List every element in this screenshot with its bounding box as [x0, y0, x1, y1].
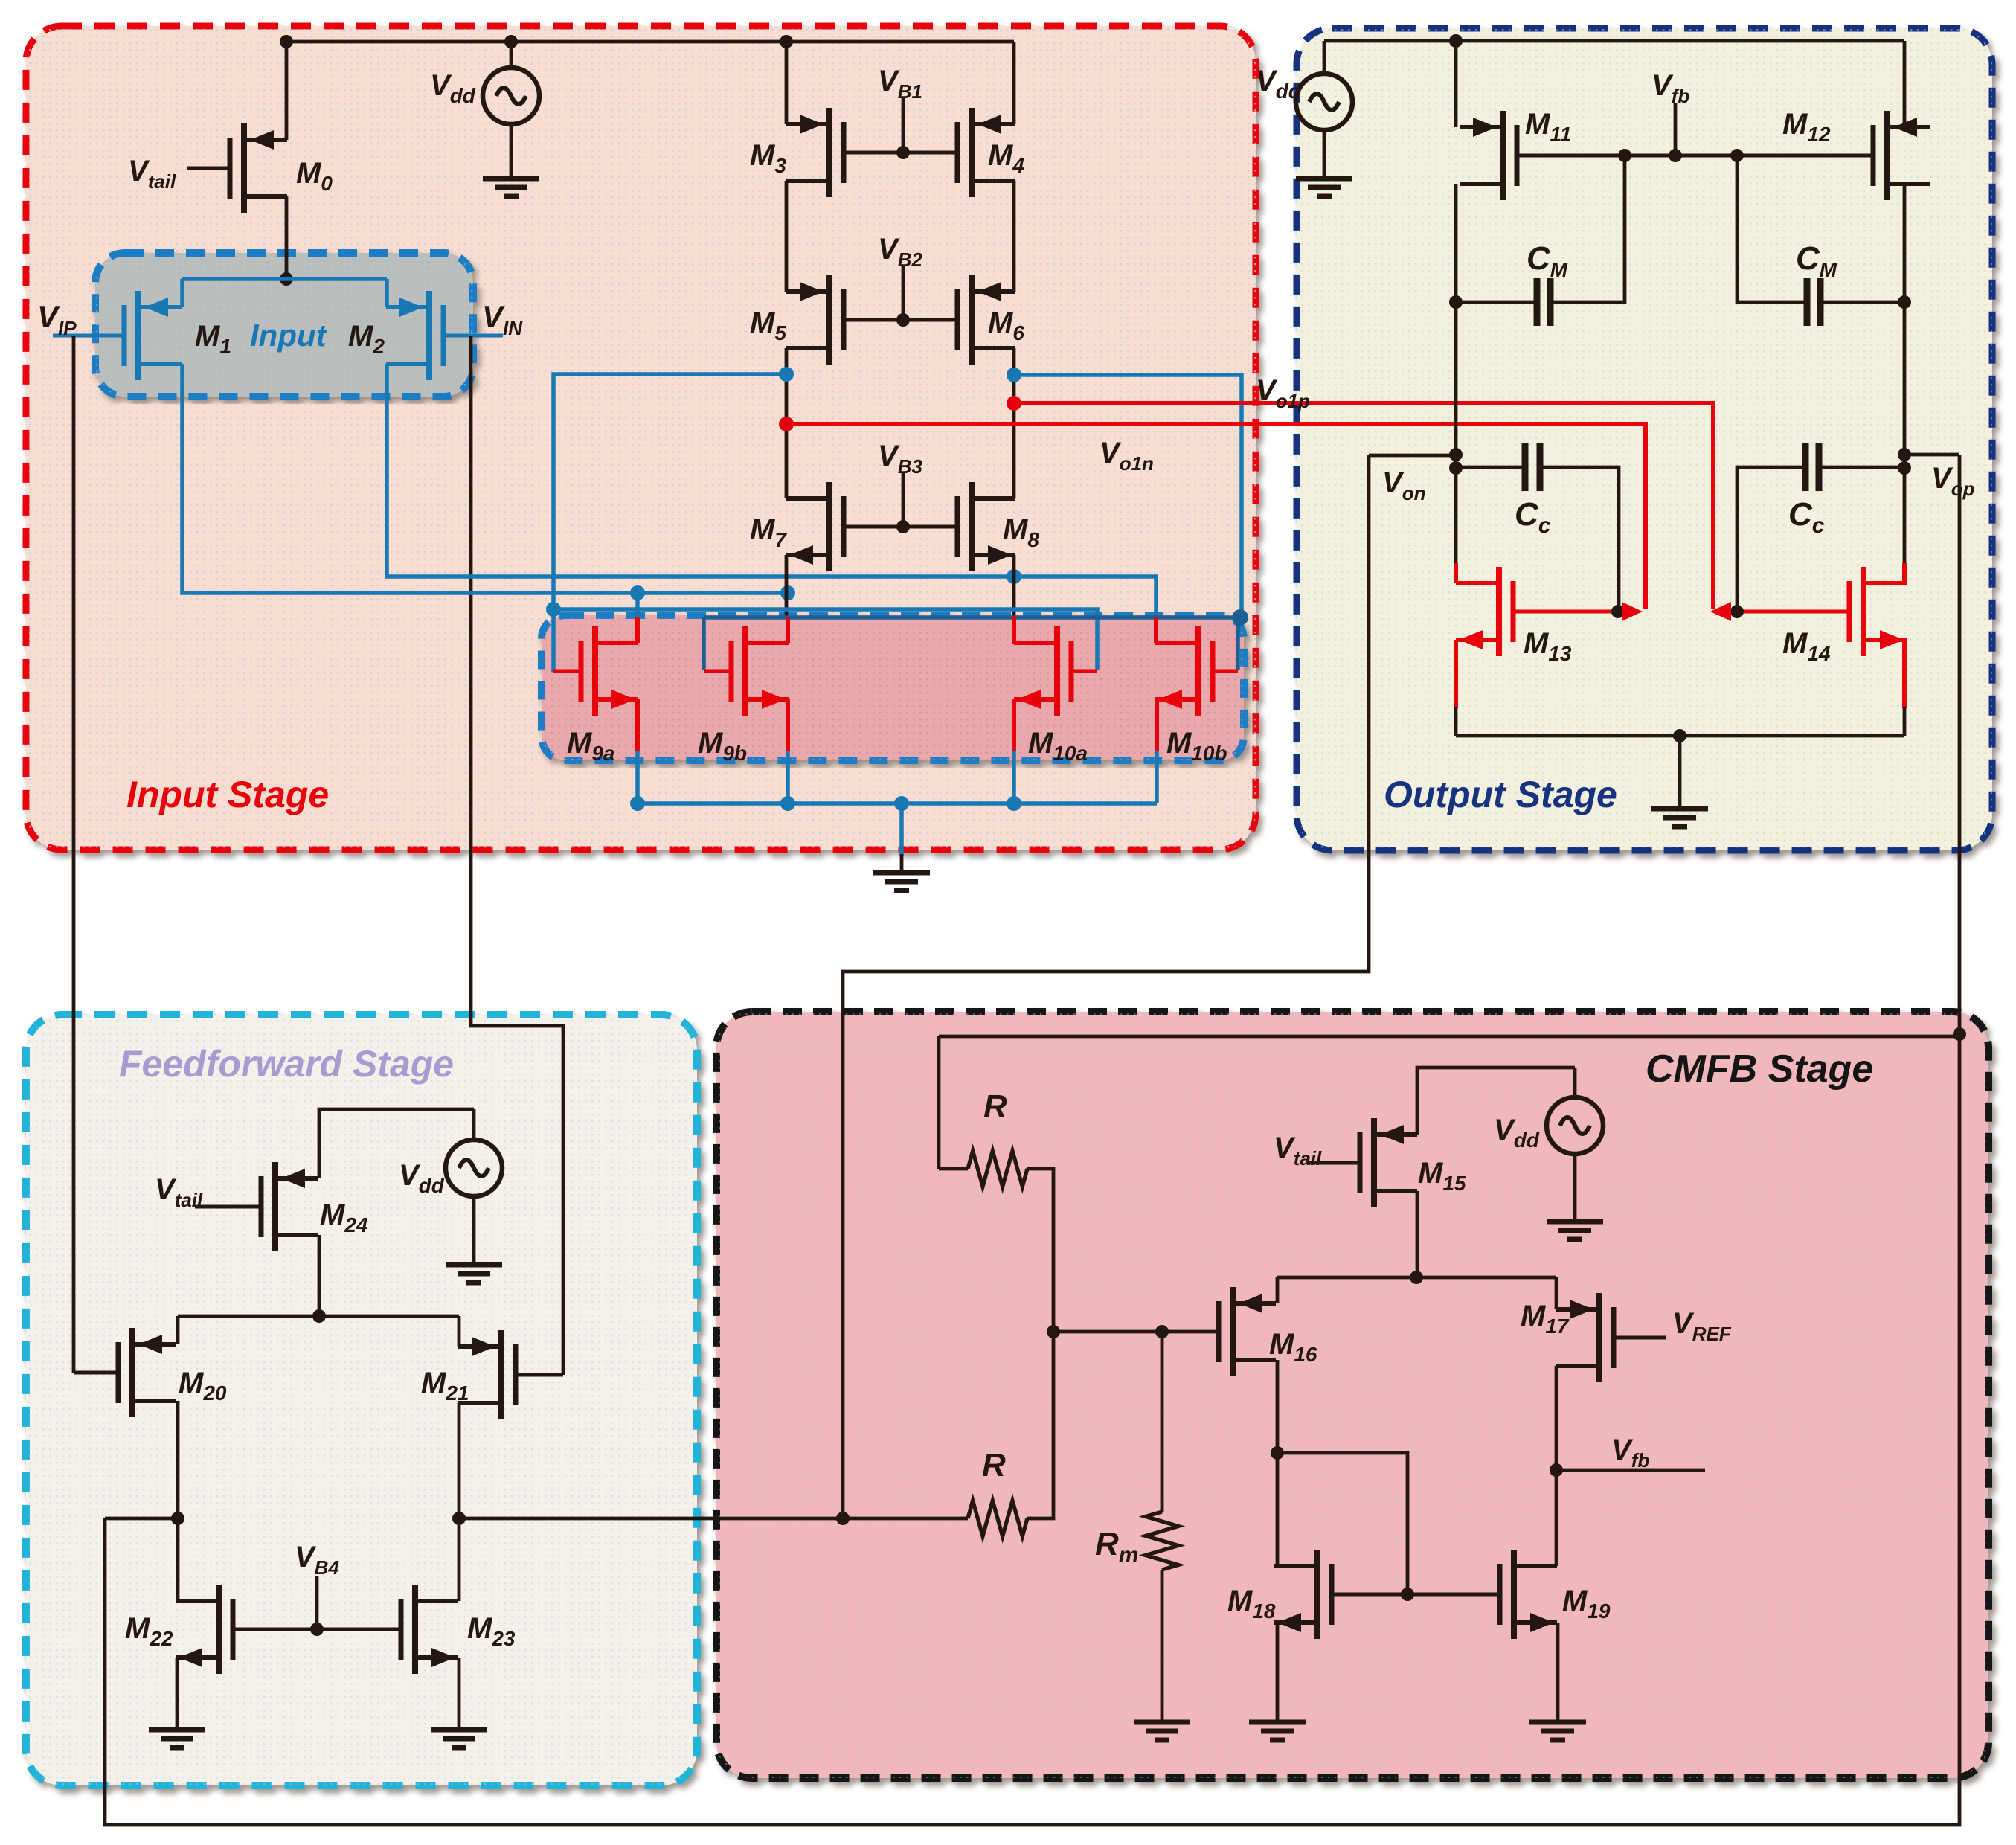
label CM (right) — [1796, 240, 1837, 281]
power source Vdd (input stage) — [483, 68, 539, 124]
wire M3 source up — [785, 42, 789, 124]
wire M11/M12 gate line — [1519, 154, 1871, 158]
input stage box — [26, 26, 1256, 850]
node Vop — [1898, 448, 1911, 461]
wire upper R drop — [937, 1036, 941, 1169]
wire M13 drain up (red) — [1454, 563, 1458, 583]
wire M9b source down — [786, 699, 790, 803]
wire input pair top (blue) — [182, 277, 387, 281]
node M15 drain / pair — [1410, 1271, 1423, 1284]
node Vop/CMFB rail — [1953, 1027, 1966, 1041]
wire Vdd rail (output stage) — [1324, 39, 1904, 43]
M9/M10 inner box — [542, 615, 1244, 760]
label M11 — [1525, 108, 1571, 146]
node bus M9a — [630, 796, 645, 811]
wire Vo1n net (blue) — [1014, 375, 1242, 616]
wire Vdd to ground (cmfb) — [1573, 1152, 1577, 1220]
wire M16/M17 source rail — [1277, 1276, 1556, 1280]
wire M13 gate lead (red) — [1513, 610, 1635, 614]
power source Vdd (CMFB) — [1547, 1097, 1603, 1154]
wire Vdd stub (ff) — [472, 1109, 476, 1141]
wire M17 drain down — [1555, 1366, 1558, 1566]
wire M21 source up — [458, 1316, 461, 1347]
label M9b — [698, 727, 747, 765]
wire M16 drain to M18/M19 gates — [1277, 1453, 1407, 1594]
label Vtail (M15) — [1274, 1132, 1322, 1169]
label Vdd (CMFB) — [1494, 1114, 1540, 1152]
feedforward stage box — [26, 1015, 697, 1785]
label VB3 — [878, 440, 922, 478]
wire M10b gate lead — [1213, 670, 1238, 673]
wire Vfb out (CMFB) — [1556, 1469, 1705, 1472]
label VREF — [1672, 1307, 1732, 1345]
label Vop — [1931, 462, 1975, 500]
wire M12 source up — [1903, 41, 1907, 127]
wire M4 drain down — [1012, 181, 1016, 292]
wire M24 drain down — [318, 1235, 321, 1316]
node CM-left gate — [1618, 149, 1631, 162]
label Vo1n — [1100, 437, 1154, 475]
wire Von bracket — [1369, 454, 1456, 458]
transistor M1 — [124, 291, 182, 380]
wire M2 drain down (blue) — [387, 364, 1156, 642]
wire M10b source red part — [1155, 699, 1159, 751]
label M14 — [1782, 627, 1831, 665]
wire output stage bottom rail — [1456, 734, 1904, 738]
label R (lower) — [982, 1447, 1006, 1483]
wire M9a source red part — [635, 699, 640, 751]
ground (M23) — [431, 1730, 487, 1748]
node VB4 gate — [310, 1623, 324, 1636]
wire Vop down to CMFB rail — [1958, 455, 1962, 1034]
label M19 — [1562, 1585, 1611, 1623]
cmfb stage box — [716, 1012, 1988, 1778]
label M1 — [195, 320, 231, 358]
capacitor CM (left) — [1537, 278, 1550, 326]
wire upper R out — [1027, 1169, 1053, 1332]
node Vfb (CMFB) — [1550, 1463, 1563, 1477]
capacitor CM (right) — [1807, 278, 1820, 326]
ground (Rm) — [1134, 1722, 1190, 1740]
capacitor Cc (right) — [1805, 443, 1819, 491]
wire Vo1n along box edge (navy) — [704, 615, 1240, 620]
label Output Stage — [1384, 774, 1617, 815]
wire upper R lead-in — [939, 1167, 968, 1171]
wire R node to M16 gate — [1053, 1330, 1219, 1334]
node M9a drain junction — [630, 585, 645, 600]
label M20 — [179, 1367, 227, 1405]
transistor M22 — [176, 1585, 233, 1674]
label VB2 — [878, 233, 922, 271]
label Rm — [1095, 1526, 1138, 1568]
wire Vdd stub (output) — [1323, 41, 1326, 75]
wire M5 drain down — [785, 348, 789, 498]
wire M20 drain down — [176, 1401, 180, 1601]
label M5 — [750, 307, 786, 344]
node bus M10a — [1007, 796, 1021, 811]
wire M0 gate — [187, 167, 230, 170]
label M18 — [1227, 1585, 1276, 1623]
wire M10b gate up (navy) — [1236, 617, 1240, 670]
wire source bus (blue) — [638, 801, 1157, 806]
node CM-right gate — [1730, 149, 1744, 162]
wire M3/M4 gate line — [844, 151, 957, 155]
power source Vdd (output stage) — [1296, 74, 1352, 130]
wire M11 source up — [1454, 41, 1458, 127]
transistor M14 — [1849, 567, 1907, 656]
wire M7 source down — [785, 555, 789, 617]
node Von — [1449, 448, 1463, 461]
node rail/M11 — [1449, 34, 1463, 48]
label Vtail (M0) — [128, 155, 176, 193]
label M9a — [567, 727, 614, 765]
node R junction — [1047, 1325, 1060, 1338]
wire lower R out — [1027, 1332, 1053, 1518]
wire M20 source up — [176, 1316, 180, 1344]
wire M22/M23 gate line — [233, 1628, 401, 1631]
node VB2 gate — [896, 313, 910, 327]
arrow M13 gate (red) — [1622, 602, 1643, 621]
wire ff left output stub — [105, 1517, 178, 1521]
wire M19 gate — [1407, 1593, 1500, 1597]
label M10b — [1166, 727, 1227, 765]
wire M4 source up — [1012, 42, 1016, 124]
wire M13 source down (red) — [1454, 640, 1458, 708]
node bus M9b — [780, 796, 795, 811]
wire M15 gate — [1309, 1161, 1360, 1165]
ground (CMFB Vdd) — [1547, 1222, 1603, 1239]
label Cc (right) — [1788, 496, 1825, 538]
wire Cc-left — [1456, 466, 1525, 469]
wire CM-left to gate — [1550, 155, 1625, 302]
transistor M9b — [731, 626, 789, 716]
node M11 drain / CM — [1449, 295, 1463, 309]
transistor M23 — [401, 1585, 458, 1674]
node M13 gate / Cc — [1611, 605, 1625, 618]
wire M9b gate up (navy) — [702, 617, 706, 670]
wire M24 gate — [195, 1205, 261, 1209]
wire Vdd stub (cmfb) — [1573, 1068, 1577, 1099]
svg-text:CMFB Stage: CMFB Stage — [1646, 1047, 1873, 1091]
node Vo1n (M6/M8) — [1007, 368, 1021, 382]
wire M10b drain red part — [1154, 617, 1158, 643]
wire M16 drain down — [1276, 1360, 1280, 1566]
wire M16 source up — [1276, 1277, 1280, 1303]
node M9b drain / M7 source — [780, 585, 795, 600]
wire M14 source down (red) — [1902, 640, 1907, 708]
wire CM-right to gate — [1737, 155, 1807, 302]
label M6 — [988, 307, 1024, 344]
resistor R (lower) — [968, 1501, 1027, 1536]
label Vfb (CMFB) — [1611, 1434, 1649, 1472]
ground (M22) — [149, 1730, 205, 1748]
wire M6 drain down — [1012, 348, 1016, 498]
wire Rm down — [1161, 1332, 1164, 1512]
wire M19 source down — [1556, 1623, 1560, 1721]
label M8 — [1003, 513, 1039, 551]
transistor M6 — [957, 275, 1015, 365]
svg-text:Feedforward Stage: Feedforward Stage — [119, 1043, 454, 1085]
node VB3 gate — [896, 520, 910, 533]
label Von — [1382, 466, 1425, 504]
ground (M18) — [1249, 1722, 1306, 1740]
label Vtail (M24) — [155, 1173, 203, 1211]
wire M10a source down — [1012, 699, 1016, 803]
wire M7/M8 gate line — [844, 525, 957, 529]
ground (input stage) — [873, 873, 930, 891]
label VIP — [37, 299, 77, 339]
wire Cc-right to M14 gate — [1737, 467, 1805, 610]
wire M10a gate lead — [1071, 670, 1097, 673]
wire M8 source down — [1012, 555, 1016, 617]
label Feedforward Stage — [119, 1043, 454, 1085]
transistor M24 — [261, 1162, 318, 1251]
wire M1 source up (blue) — [180, 279, 184, 307]
transistor M21 — [458, 1330, 516, 1419]
transistor M16 — [1219, 1287, 1276, 1376]
wire M9b source red part — [786, 699, 790, 751]
label Input Stage — [126, 774, 329, 815]
wire VB4 stub — [315, 1576, 319, 1629]
wire M14 source down (black) — [1903, 707, 1907, 736]
wire rail to ground stub — [1678, 736, 1682, 807]
ground (feedforward Vdd) — [446, 1265, 502, 1283]
wire M10b source down — [1155, 699, 1159, 803]
wire Rm to ground — [1161, 1570, 1164, 1721]
wire M14 drain up (red) — [1902, 563, 1907, 583]
node bottom rail ground — [1673, 729, 1686, 742]
wire Vo1p to M9a gate (blue) — [551, 609, 556, 672]
wire Vop out — [1904, 453, 1959, 457]
transistor M20 — [118, 1328, 176, 1417]
ground (output stage Vdd) — [1296, 179, 1352, 196]
wire Vo1p to M10a gate (blue) — [553, 609, 1097, 670]
node M12 drain / CM — [1898, 295, 1911, 309]
wire M2 source up (blue) — [385, 279, 389, 307]
node rail/M3 — [780, 35, 793, 48]
ground (input stage Vdd) — [483, 179, 539, 196]
label Vo1p — [1256, 374, 1310, 412]
label M15 — [1418, 1157, 1466, 1195]
node bus ground — [894, 796, 909, 811]
node Vfb gate — [1669, 149, 1682, 162]
wire CM-right — [1820, 301, 1904, 304]
wire CM-left — [1456, 301, 1537, 304]
node M8 source / M10a drain — [1007, 569, 1021, 584]
wire M24 source bracket — [319, 1109, 474, 1178]
wire M5/M6 gate line — [844, 318, 957, 322]
label M23 — [467, 1612, 516, 1650]
wire Vo1p to M14 gate (red) — [1014, 403, 1713, 609]
label M24 — [320, 1199, 368, 1236]
wire CMFB top rail — [939, 1035, 1959, 1039]
wire M17 source up — [1555, 1277, 1558, 1309]
label M13 — [1524, 627, 1572, 665]
transistor M12 — [1873, 111, 1930, 200]
wire M10a source red part — [1012, 699, 1016, 751]
power source Vdd (feedforward) — [446, 1140, 502, 1196]
wire M12 drain down — [1903, 184, 1907, 563]
node M14 gate / Cc — [1730, 605, 1744, 618]
transistor M9a — [581, 626, 638, 716]
node M21 drain — [452, 1512, 466, 1525]
label CM (left) — [1527, 240, 1568, 281]
wire M13 source down (black) — [1454, 707, 1458, 736]
transistor M10b — [1155, 626, 1213, 716]
label Vfb (output) — [1651, 69, 1689, 107]
wire Vo1n to M13 gate (red) — [786, 424, 1646, 609]
arrow M14 gate (red) — [1710, 602, 1731, 621]
wire VIN down — [471, 336, 563, 1375]
wire M9a drain up (blue) — [635, 593, 640, 617]
wire Von down to CMFB — [843, 455, 1369, 1518]
label M2 — [348, 320, 385, 358]
wire M20 gate — [74, 1371, 118, 1375]
wire Vdd to ground (ff) — [472, 1195, 476, 1263]
input pair inner box — [95, 253, 473, 397]
wire VB3 stub — [902, 473, 905, 527]
label VB4 — [295, 1541, 339, 1579]
svg-text:Input: Input — [250, 318, 328, 353]
wire M21 drain down — [458, 1403, 461, 1601]
wire Vdd to ground — [510, 123, 513, 179]
node tail/input-pair — [280, 272, 293, 286]
wire M0 drain up — [285, 42, 289, 140]
resistor Rm — [1146, 1512, 1178, 1570]
label R (upper) — [983, 1088, 1007, 1125]
wire Vfb stub — [1674, 103, 1678, 155]
transistor M7 — [786, 482, 844, 571]
label Vdd (feedforward) — [399, 1159, 445, 1197]
svg-text:Output Stage: Output Stage — [1384, 774, 1617, 815]
label M12 — [1782, 108, 1831, 146]
wire M9a drain up (red) — [635, 617, 640, 643]
transistor M11 — [1460, 111, 1517, 200]
wire M1 drain down (blue) — [182, 364, 788, 593]
wire M22 source down — [176, 1658, 179, 1728]
node Vo1n corner — [1232, 609, 1248, 626]
wire M14 gate lead (red) — [1720, 610, 1849, 614]
label Input — [250, 318, 328, 353]
wire Vdd to ground (output) — [1323, 129, 1326, 179]
wire M9a source down — [635, 699, 640, 803]
wire bus to ground (black) — [900, 854, 904, 873]
transistor M10a — [1014, 626, 1071, 716]
wire Vo1p net (blue) — [553, 374, 786, 609]
label M21 — [421, 1367, 469, 1405]
wire M18 source down — [1276, 1623, 1280, 1721]
wire M2 gate (Vin) — [443, 334, 503, 338]
output stage box — [1297, 28, 1992, 850]
node Cc-left tap — [1449, 461, 1463, 475]
wire Vdd top rail (input stage) — [286, 40, 1014, 44]
label Vdd (output stage) — [1256, 65, 1302, 103]
node VB1 gate — [896, 146, 910, 159]
node Rm tap — [1155, 1325, 1169, 1338]
wire M0 source down — [285, 196, 289, 279]
wire M21 gate — [516, 1373, 563, 1377]
transistor M8 — [957, 482, 1015, 571]
transistor M17 — [1556, 1293, 1614, 1382]
label M7 — [750, 513, 787, 551]
label VIN — [482, 299, 523, 339]
transistor M2 — [386, 291, 443, 380]
label Vdd (input stage) — [430, 69, 476, 107]
wire M1 gate (Vip) — [53, 334, 124, 338]
node Vo1p red tap — [1007, 396, 1021, 411]
wire VB2 stub — [902, 266, 905, 320]
wire Vop down to bottom — [105, 1034, 1959, 1825]
node rail/Vdd stub — [504, 35, 518, 48]
svg-text:R: R — [982, 1447, 1006, 1483]
wire Cc-right — [1819, 466, 1904, 469]
label M17 — [1521, 1300, 1570, 1338]
wire M15 drain down — [1416, 1191, 1419, 1277]
label Cc (left) — [1515, 496, 1551, 538]
wire M15 source bracket — [1417, 1068, 1575, 1135]
node Vo1p branch — [546, 602, 561, 617]
transistor M5 — [786, 275, 844, 365]
node Cc-right tap — [1898, 461, 1911, 475]
label M3 — [750, 139, 786, 177]
node M18/M19 gate — [1401, 1588, 1414, 1601]
ground (output stage) — [1651, 809, 1708, 827]
wire VIP down (to M20 gate) — [72, 336, 76, 1373]
transistor M3 — [786, 108, 844, 197]
node tail (ff) — [312, 1309, 326, 1323]
ground (M19) — [1529, 1722, 1586, 1740]
node M20 drain — [171, 1512, 184, 1525]
label M16 — [1269, 1328, 1317, 1366]
wire bus to ground (blue) — [899, 803, 904, 856]
resistor R (upper) — [968, 1151, 1027, 1187]
transistor M4 — [957, 108, 1015, 197]
svg-text:R: R — [983, 1088, 1007, 1125]
wire M18 gate — [1332, 1593, 1407, 1597]
node Von/ff output — [836, 1512, 850, 1525]
node M16 drain — [1271, 1446, 1284, 1460]
wire M9b drain up (red) — [786, 617, 790, 643]
capacitor Cc (left) — [1525, 443, 1540, 491]
svg-text:Input Stage: Input Stage — [126, 774, 329, 815]
node Vo1p (M5/M7) — [779, 367, 794, 382]
node Vo1n red tap — [779, 417, 794, 431]
label CMFB Stage — [1646, 1047, 1873, 1091]
label M4 — [988, 139, 1024, 177]
wire M23 source down — [458, 1658, 461, 1728]
wire M11 drain down — [1454, 184, 1458, 563]
wire VB1 stub — [902, 98, 905, 153]
wire M9b gate lead — [704, 670, 731, 673]
transistor M18 — [1274, 1550, 1332, 1639]
wire Cc-left to M13 gate — [1540, 467, 1619, 610]
node rail/M0 drain — [280, 35, 293, 48]
wire M3 drain down — [785, 181, 789, 292]
transistor M0 — [230, 123, 287, 213]
wire Vdd stub — [510, 42, 513, 68]
wire ff tail — [178, 1315, 459, 1318]
wire M9a gate lead — [553, 670, 581, 673]
wire M17 gate — [1614, 1336, 1666, 1340]
label VB1 — [878, 65, 922, 103]
transistor M19 — [1500, 1550, 1557, 1639]
label M22 — [125, 1612, 173, 1650]
label M10a — [1028, 727, 1088, 765]
transistor M15 — [1360, 1118, 1417, 1207]
wire M10a drain red part — [1012, 616, 1016, 644]
label M0 — [296, 157, 333, 195]
wire ff right output to CMFB — [459, 1517, 968, 1521]
